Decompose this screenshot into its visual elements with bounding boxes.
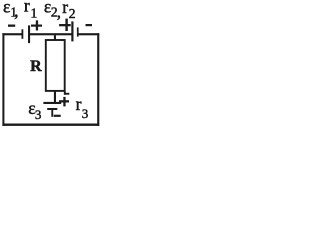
battery B1 long plate (positive) — [28, 25, 30, 43]
wire resistor to battery B3 — [54, 91, 56, 102]
battery B2 minus sign — [86, 24, 93, 26]
wire stub top node to resistor — [54, 35, 56, 40]
svg-text:2: 2 — [69, 6, 76, 21]
svg-text:,: , — [14, 1, 18, 20]
svg-text:,: , — [57, 2, 61, 21]
wire top-left segment — [2, 33, 22, 35]
label battery 1 "e1, r1" — [3, 0, 37, 20]
battery B1 minus sign — [8, 25, 15, 27]
resistor R box — [46, 40, 65, 91]
battery B1 plus sign — [31, 20, 42, 30]
small dash below box corner — [64, 93, 69, 95]
label battery 2 "e2, r2" — [44, 0, 76, 21]
svg-text:1: 1 — [31, 5, 38, 20]
svg-text:ε: ε — [3, 0, 10, 16]
wire right side — [97, 33, 99, 126]
battery B3 short plate (negative, bottom) — [47, 108, 57, 110]
wire left side — [2, 33, 4, 126]
battery B2 short plate (negative) — [77, 27, 79, 36]
svg-text:3: 3 — [35, 107, 42, 122]
svg-text:r: r — [24, 0, 30, 16]
battery B3 minus sign — [54, 115, 61, 117]
battery B1 short plate (negative) — [22, 29, 24, 39]
battery B2 long plate (positive) — [71, 21, 73, 41]
wire top-middle segment — [29, 33, 73, 35]
wire top-right segment — [78, 33, 99, 35]
battery B2 plus sign — [59, 19, 71, 31]
svg-text:r: r — [62, 0, 68, 17]
svg-text:3: 3 — [82, 106, 89, 121]
wire below battery B3 — [51, 110, 53, 117]
battery B3 plus sign — [59, 97, 69, 107]
svg-text:R: R — [30, 58, 42, 75]
svg-text:r: r — [76, 94, 82, 114]
battery B3 long plate (positive, top) — [43, 102, 61, 104]
label battery 3 "r3" — [76, 94, 89, 121]
label battery 3 "e3" — [28, 98, 41, 122]
wire bottom — [2, 124, 99, 126]
box right edge overshoot — [64, 91, 66, 95]
